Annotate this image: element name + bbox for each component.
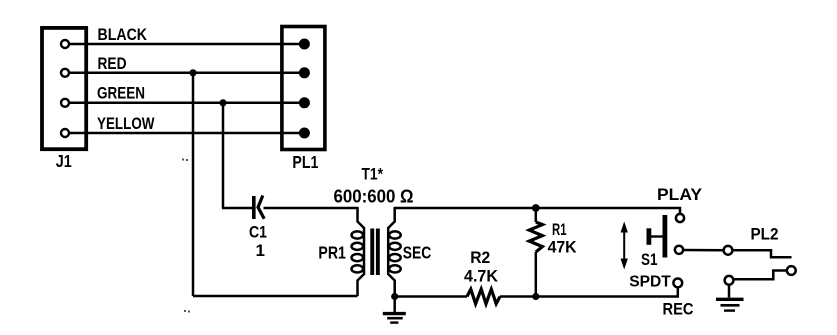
S1 middle contact (common) (675, 246, 683, 254)
node junction dot on RED wire (189, 69, 196, 76)
wire vertical from RED junction down to bottom rail (192, 73, 195, 296)
svg-text:S1: S1 (641, 251, 658, 269)
primary bottom lead (358, 274, 365, 296)
svg-text:GREEN: GREEN (97, 83, 145, 102)
svg-text:R2: R2 (470, 249, 490, 267)
wire bottom rail from RED junction to primary bottom (193, 295, 358, 298)
svg-text:PL1: PL1 (292, 152, 318, 172)
wire bottom rail from secondary dot to R2 (395, 295, 467, 298)
plug PL2 (724, 246, 796, 285)
wire GREEN junction to C1 left plate (222, 207, 253, 210)
S1 bottom contact (REC) (673, 279, 682, 288)
svg-text:T1*: T1* (362, 165, 384, 184)
S1 top contact (PLAY) (676, 214, 684, 222)
svg-text:1: 1 (256, 241, 265, 260)
svg-text:REC: REC (663, 300, 694, 319)
resistor R1 (529, 208, 542, 297)
primary winding PR1 backbone (363, 227, 366, 275)
S1 handle bar (647, 228, 652, 245)
secondary top lead (388, 207, 395, 228)
connector PL1 (282, 27, 325, 150)
svg-text:J1: J1 (56, 151, 72, 171)
PL2 tip wire (732, 250, 791, 257)
node junction dot at secondary bottom (391, 293, 398, 300)
core bars (370, 229, 374, 276)
wire C1 right plate to transformer primary top (264, 207, 358, 210)
svg-text:RED: RED (98, 54, 127, 73)
resistor R2 (467, 289, 500, 304)
svg-text:C1: C1 (249, 223, 267, 242)
secondary winding SEC backbone (387, 227, 390, 275)
S1 handle stem (650, 235, 663, 237)
secondary bottom lead (388, 274, 395, 297)
svg-text:SEC: SEC (403, 243, 432, 263)
secondary winding SEC loops (389, 231, 401, 238)
svg-text:47K: 47K (548, 239, 577, 257)
svg-text:SPDT: SPDT (629, 274, 671, 291)
wire top rail from secondary top to PLAY corner (395, 208, 680, 214)
svg-text:R1: R1 (552, 220, 567, 239)
capacitor C1 (254, 196, 264, 220)
ground at transformer secondary (383, 297, 406, 323)
S1 plunger bar (663, 215, 668, 258)
wire YELLOW J1 pin4 to PL1 pin4 (69, 132, 304, 135)
svg-text:BLACK: BLACK (98, 25, 148, 44)
wire RED J1 pin2 to PL1 pin2 (69, 72, 304, 75)
wire S1 common to PL2 tip (683, 249, 723, 252)
node junction dot on GREEN wire (219, 99, 226, 106)
scan artifact dots (182, 159, 190, 313)
primary winding PR1 loops (352, 231, 364, 238)
PL2 sleeve wire (734, 271, 787, 280)
svg-text:PLAY: PLAY (657, 185, 703, 204)
node junction dot top rail at R1 (532, 204, 540, 212)
connector J1 (42, 28, 86, 149)
svg-text:PL2: PL2 (751, 225, 779, 244)
node junction dot bottom rail at R1 (532, 293, 539, 300)
S1 motion arrow (621, 222, 628, 270)
wire BLACK J1 pin1 to PL1 pin1 (69, 43, 304, 46)
switch S1 (621, 214, 685, 287)
svg-text:PR1: PR1 (318, 243, 346, 263)
wire bottom rail from R2 to REC corner (500, 287, 678, 296)
ground at PL2 (716, 285, 744, 311)
PL2 sleeve contact right (787, 266, 796, 275)
svg-text:YELLOW: YELLOW (97, 114, 155, 133)
transformer T1 (352, 207, 401, 297)
PL2 tip contact (724, 246, 733, 255)
primary top lead (358, 207, 365, 228)
svg-text:4.7K: 4.7K (464, 268, 498, 286)
svg-text:600:600 Ω: 600:600 Ω (334, 187, 414, 207)
PL2 sleeve contact left (725, 276, 734, 285)
wire vertical from GREEN junction down to C1 level (222, 103, 225, 208)
wire GREEN J1 pin3 to PL1 pin3 (69, 102, 304, 105)
